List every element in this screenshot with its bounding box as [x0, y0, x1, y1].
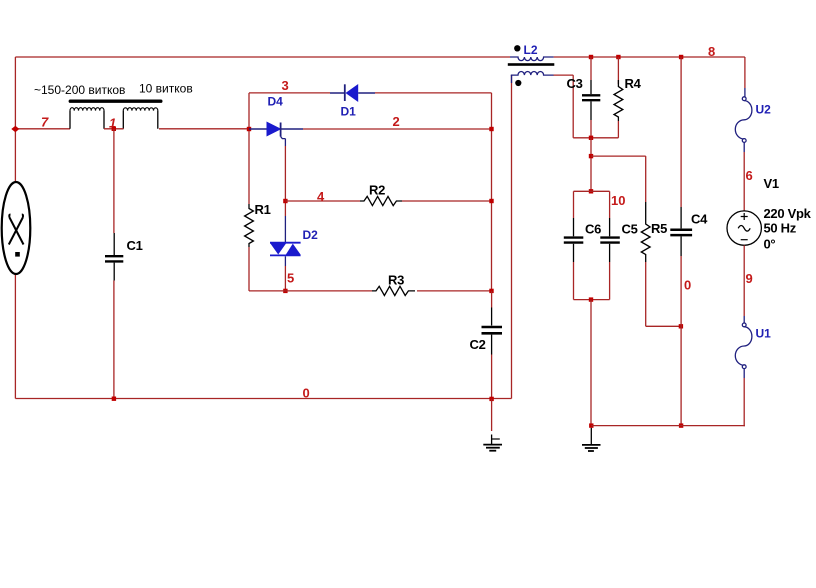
wire across to R5	[591, 155, 646, 157]
junction C1/net0	[112, 397, 116, 401]
svg-text:R4: R4	[625, 76, 642, 91]
junction C3 top	[589, 55, 593, 59]
lamp X1	[2, 182, 31, 274]
wire right rail of box	[491, 93, 493, 291]
lamp filament dot	[15, 252, 20, 257]
svg-text:10: 10	[611, 193, 625, 208]
wire net 7 horizontal	[15, 128, 70, 130]
wire left rail of box	[248, 93, 250, 204]
svg-text:C2: C2	[470, 337, 486, 352]
svg-text:0°: 0°	[764, 236, 776, 251]
node 7 arrow	[11, 126, 19, 133]
svg-text:220 Vpk: 220 Vpk	[764, 206, 812, 221]
inductor L2 dot top	[514, 45, 520, 51]
transformer T1 secondary winding 10 turns	[123, 108, 158, 111]
wire net 4	[285, 200, 360, 202]
junction R5 / C4 line	[679, 324, 683, 328]
diode D1	[330, 84, 375, 102]
inductor L2 dot bottom	[515, 80, 521, 86]
wire C6/C5 box bottom	[574, 299, 610, 301]
wire R5 bottom across	[646, 325, 681, 327]
wire C5 branch upper	[609, 191, 611, 218]
junction right rail / net 2	[489, 127, 493, 131]
junction R4 top	[616, 55, 620, 59]
junction right rail / net 5	[489, 289, 493, 293]
capacitor C3	[582, 80, 600, 120]
wire C5 branch lower	[609, 262, 611, 300]
svg-text:C6: C6	[585, 221, 601, 236]
svg-text:0: 0	[684, 277, 691, 292]
svg-text:U1: U1	[756, 327, 772, 341]
capacitor C5	[600, 218, 620, 262]
svg-text:R2: R2	[369, 183, 385, 198]
wire C2 to net 0	[491, 355, 493, 399]
inductor L2 core bar	[508, 63, 555, 66]
svg-text:D2: D2	[303, 228, 319, 242]
inductor L2 secondary winding	[511, 71, 554, 75]
inductor U2	[735, 97, 752, 143]
capacitor C6	[564, 218, 584, 262]
svg-text:3: 3	[282, 78, 289, 93]
wire C3/R4 bottom	[573, 137, 618, 139]
wire left vertical rail	[14, 57, 16, 399]
svg-text:2: 2	[393, 114, 400, 129]
svg-text:V1: V1	[764, 176, 779, 191]
svg-text:C1: C1	[127, 238, 143, 253]
wire C4 line lower	[680, 256, 682, 426]
junction C4 line top	[679, 55, 683, 59]
junction ground / bottom net	[589, 423, 593, 427]
svg-text:6: 6	[746, 168, 753, 183]
wire C6 branch upper	[573, 191, 575, 218]
resistor R1	[245, 204, 254, 247]
wire C3 branch	[590, 57, 592, 80]
diode D4	[249, 122, 285, 138]
wire net 2	[281, 128, 303, 130]
resistor R3	[372, 286, 415, 295]
junction node 5	[283, 289, 287, 293]
svg-text:C4: C4	[691, 211, 708, 226]
capacitor C4	[670, 207, 692, 256]
transformer T1 core bar	[70, 99, 161, 102]
wire R4 lower lead	[617, 121, 619, 138]
svg-text:U2: U2	[756, 103, 772, 117]
junction C4 line / bottom net	[679, 423, 683, 427]
junction C6/C5 box bottom	[589, 297, 593, 301]
wire L2 secondary left lead down	[511, 75, 513, 83]
wire vertical to L2 secondary	[511, 75, 513, 398]
wire net 3 top of snubber box	[249, 92, 330, 94]
inductor U1	[735, 323, 752, 369]
node 6	[743, 142, 745, 152]
svg-text:8: 8	[708, 44, 715, 59]
wire V1 branch top	[744, 57, 746, 88]
svg-text:50 Hz: 50 Hz	[764, 221, 797, 236]
wire C1 bottom to net 0	[113, 281, 115, 399]
wire bottom net 0 left	[15, 398, 511, 400]
wire top net 8 horizontal	[15, 56, 745, 58]
wire transformer to D4 sub-circuit	[159, 128, 249, 130]
ground GND1	[491, 399, 493, 431]
wire D4 cathode down to D2	[284, 139, 286, 146]
wire R5 lower lead	[645, 262, 647, 326]
transformer T1 primary winding	[70, 108, 104, 111]
junction right rail / net 4	[489, 199, 493, 203]
wire C6/C5 box top	[574, 190, 610, 192]
resistor R2	[360, 196, 402, 205]
wire C3 lower lead	[590, 120, 592, 138]
junction node 10	[589, 189, 593, 193]
svg-text:C3: C3	[567, 76, 583, 91]
resistor R4	[617, 57, 619, 84]
wire net 5 bottom of box	[249, 290, 372, 292]
capacitor C2	[482, 308, 503, 355]
svg-text:D4: D4	[268, 94, 284, 108]
wire left rail lower	[248, 247, 250, 291]
wire from node1 down to C1	[113, 129, 115, 233]
diac D2	[270, 243, 301, 256]
svg-text:R1: R1	[255, 202, 271, 217]
wire node 1 segment	[104, 128, 124, 130]
svg-text:C5: C5	[622, 222, 638, 237]
svg-text:5: 5	[287, 271, 294, 286]
svg-text:D1: D1	[341, 105, 357, 119]
node 9	[743, 245, 745, 316]
wire C6 branch lower	[573, 262, 575, 300]
node 1 junction	[112, 127, 116, 131]
junction C2 / net 0	[489, 397, 493, 401]
wire L2 secondary right lead	[554, 74, 574, 76]
wire D2 bottom to net 5	[284, 256, 286, 266]
wire C4 line upper	[680, 57, 682, 207]
svg-text:9: 9	[746, 271, 753, 286]
svg-text:L2: L2	[524, 43, 538, 57]
svg-text:R3: R3	[388, 273, 404, 288]
source V1	[727, 211, 761, 245]
wire down from node10 junction to ground	[590, 300, 592, 426]
svg-text:4: 4	[317, 189, 325, 204]
capacitor C1	[105, 233, 123, 281]
wire U1 bottom to net 0	[743, 369, 745, 378]
svg-text:R5: R5	[651, 221, 667, 236]
resistor R5	[641, 202, 650, 262]
svg-text:~150-200 витков: ~150-200 витков	[34, 83, 125, 97]
junction left rail / net 7 wire	[247, 127, 251, 131]
ground GND2	[582, 428, 601, 451]
wire down to node split	[590, 138, 592, 192]
wire rail down to C2	[491, 291, 493, 308]
svg-text:7: 7	[41, 115, 49, 130]
inductor L2 primary winding	[510, 57, 554, 61]
junction R5 tap	[589, 154, 593, 158]
junction C3 bottom	[589, 136, 593, 140]
node 4 junction	[283, 199, 287, 203]
svg-text:10 витков: 10 витков	[139, 82, 193, 96]
svg-text:0: 0	[303, 386, 310, 401]
wire bottom net right	[591, 425, 745, 427]
